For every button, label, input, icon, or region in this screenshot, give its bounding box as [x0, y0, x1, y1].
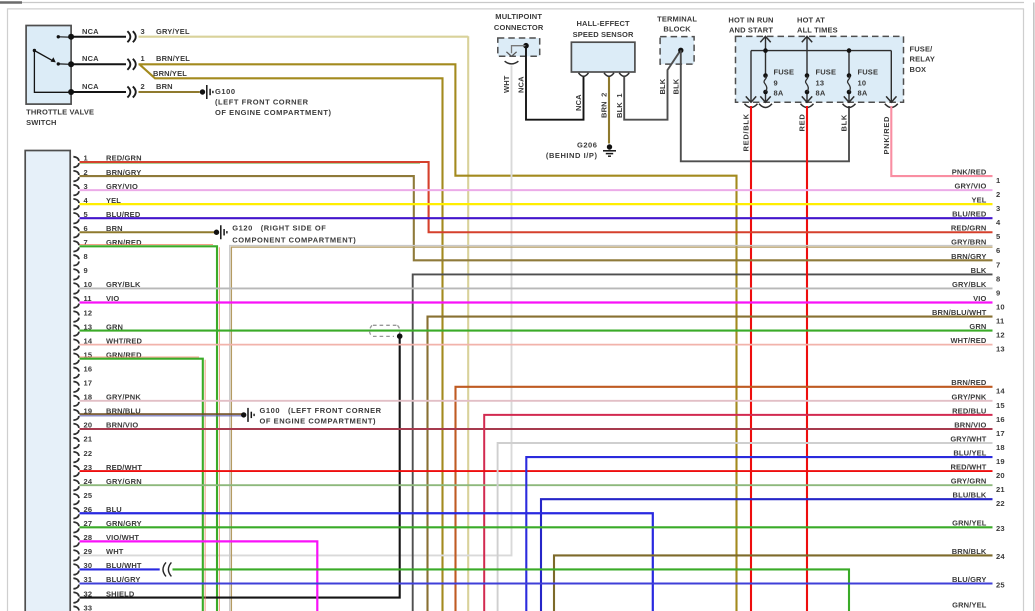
svg-text:6: 6: [996, 246, 1000, 255]
svg-text:8: 8: [84, 252, 88, 261]
svg-text:9: 9: [996, 288, 1000, 297]
svg-text:G206: G206: [577, 141, 598, 150]
svg-text:BOX: BOX: [910, 65, 927, 74]
svg-text:16: 16: [84, 364, 93, 373]
svg-text:17: 17: [996, 429, 1005, 438]
svg-text:25: 25: [996, 580, 1005, 589]
svg-text:25: 25: [84, 491, 93, 500]
svg-text:18: 18: [996, 443, 1005, 452]
svg-text:4: 4: [996, 218, 1001, 227]
svg-text:COMPONENT COMPARTMENT): COMPONENT COMPARTMENT): [232, 235, 356, 244]
svg-text:21: 21: [996, 485, 1005, 494]
svg-text:8A: 8A: [774, 89, 784, 98]
svg-text:22: 22: [84, 449, 93, 458]
svg-text:WHT/RED: WHT/RED: [950, 336, 986, 345]
svg-text:BLU/BLK: BLU/BLK: [953, 491, 987, 500]
svg-text:BLK 1: BLK 1: [615, 93, 624, 118]
svg-text:10: 10: [858, 78, 867, 87]
svg-text:19: 19: [996, 457, 1005, 466]
svg-text:12: 12: [84, 308, 93, 317]
svg-text:9: 9: [774, 78, 778, 87]
svg-text:3: 3: [996, 204, 1000, 213]
svg-text:1: 1: [996, 176, 1001, 185]
svg-text:GRY/YEL: GRY/YEL: [156, 27, 190, 36]
svg-text:RED/WHT: RED/WHT: [950, 463, 986, 472]
svg-text:23: 23: [996, 524, 1005, 533]
svg-text:13: 13: [816, 78, 825, 87]
svg-text:20: 20: [996, 471, 1005, 480]
svg-text:9: 9: [84, 266, 88, 275]
svg-text:24: 24: [996, 552, 1005, 561]
svg-text:8: 8: [996, 274, 1000, 283]
svg-text:HALL-EFFECT: HALL-EFFECT: [576, 19, 630, 28]
svg-text:2: 2: [996, 190, 1000, 199]
svg-text:GRN/YEL: GRN/YEL: [952, 601, 987, 610]
svg-text:BLK: BLK: [658, 78, 667, 94]
svg-text:THROTTLE VALVE: THROTTLE VALVE: [26, 108, 94, 117]
svg-text:BLOCK: BLOCK: [663, 25, 691, 34]
svg-text:FUSE: FUSE: [816, 67, 837, 76]
svg-text:OF ENGINE COMPARTMENT): OF ENGINE COMPARTMENT): [215, 108, 332, 117]
svg-text:HOT IN RUN: HOT IN RUN: [728, 16, 773, 25]
svg-text:2: 2: [141, 82, 145, 91]
svg-text:WHT: WHT: [106, 547, 124, 556]
svg-text:SPEED SENSOR: SPEED SENSOR: [573, 30, 634, 39]
svg-text:22: 22: [996, 499, 1005, 508]
svg-text:MULTIPOINT: MULTIPOINT: [495, 12, 542, 21]
svg-text:GRY/VIO: GRY/VIO: [954, 182, 986, 191]
svg-text:BRN/BLK: BRN/BLK: [952, 547, 987, 556]
svg-text:GRY/GRN: GRY/GRN: [951, 477, 987, 486]
svg-text:NCA: NCA: [574, 94, 583, 111]
svg-text:NCA: NCA: [82, 82, 99, 91]
svg-text:(BEHIND I/P): (BEHIND I/P): [546, 151, 598, 160]
svg-text:RED/BLU: RED/BLU: [952, 406, 986, 415]
svg-text:BRN/GRY: BRN/GRY: [951, 252, 986, 261]
svg-text:GRY/BRN: GRY/BRN: [951, 238, 986, 247]
svg-text:33: 33: [84, 603, 93, 611]
svg-text:PNK/RED: PNK/RED: [882, 116, 891, 155]
svg-text:GRN/YEL: GRN/YEL: [952, 519, 987, 528]
svg-text:RED/BLK: RED/BLK: [742, 113, 751, 151]
svg-text:21: 21: [84, 435, 93, 444]
svg-text:FUSE: FUSE: [774, 67, 795, 76]
svg-text:TERMINAL: TERMINAL: [657, 14, 697, 23]
svg-text:FUSE: FUSE: [858, 67, 879, 76]
svg-text:WHT: WHT: [502, 75, 511, 93]
svg-text:BLU/GRY: BLU/GRY: [952, 575, 987, 584]
svg-text:15: 15: [996, 401, 1005, 410]
svg-text:GRN: GRN: [969, 322, 986, 331]
svg-text:HOT AT: HOT AT: [797, 16, 825, 25]
svg-text:RED: RED: [798, 114, 807, 132]
svg-text:G100: G100: [215, 87, 236, 96]
svg-text:NCA: NCA: [517, 76, 526, 93]
svg-text:CONNECTOR: CONNECTOR: [494, 23, 544, 32]
svg-text:BRN/RED: BRN/RED: [951, 378, 987, 387]
svg-text:13: 13: [996, 345, 1005, 354]
svg-text:(LEFT FRONT CORNER: (LEFT FRONT CORNER: [215, 97, 309, 106]
svg-text:BRN/YEL: BRN/YEL: [153, 69, 187, 78]
svg-text:PNK/RED: PNK/RED: [952, 167, 987, 176]
svg-text:G120 (RIGHT SIDE OF: G120 (RIGHT SIDE OF: [232, 224, 326, 233]
svg-text:BLK: BLK: [971, 266, 987, 275]
svg-text:BLK: BLK: [671, 78, 680, 94]
svg-text:7: 7: [996, 260, 1000, 269]
svg-text:BLU/YEL: BLU/YEL: [953, 448, 986, 457]
svg-text:BRN/VIO: BRN/VIO: [954, 420, 986, 429]
svg-text:RELAY: RELAY: [910, 55, 935, 64]
svg-text:17: 17: [84, 379, 93, 388]
svg-text:NCA: NCA: [82, 54, 99, 63]
svg-text:AND START: AND START: [729, 26, 773, 35]
svg-text:3: 3: [141, 27, 145, 36]
svg-text:16: 16: [996, 415, 1005, 424]
svg-text:GRY/PNK: GRY/PNK: [952, 392, 987, 401]
svg-text:29: 29: [84, 547, 93, 556]
svg-text:5: 5: [996, 232, 1001, 241]
svg-text:BLU/RED: BLU/RED: [952, 210, 987, 219]
svg-text:10: 10: [996, 302, 1005, 311]
svg-text:GRY/BLK: GRY/BLK: [952, 280, 987, 289]
svg-text:FUSE/: FUSE/: [910, 44, 934, 53]
svg-text:GRY/WHT: GRY/WHT: [950, 434, 986, 443]
svg-text:BRN/BLU/WHT: BRN/BLU/WHT: [932, 308, 987, 317]
svg-text:BRN: BRN: [156, 82, 173, 91]
svg-text:12: 12: [996, 331, 1005, 340]
svg-text:11: 11: [996, 316, 1005, 325]
svg-text:BRN/YEL: BRN/YEL: [156, 54, 190, 63]
svg-text:NCA: NCA: [82, 27, 99, 36]
svg-text:1: 1: [141, 54, 145, 63]
svg-text:VIO: VIO: [973, 294, 986, 303]
svg-text:OF ENGINE COMPARTMENT): OF ENGINE COMPARTMENT): [260, 417, 377, 426]
svg-text:8A: 8A: [816, 89, 826, 98]
svg-text:RED/GRN: RED/GRN: [951, 224, 987, 233]
svg-text:8A: 8A: [858, 89, 868, 98]
svg-text:BRN 2: BRN 2: [600, 93, 609, 119]
svg-text:G100 (LEFT FRONT CORNER: G100 (LEFT FRONT CORNER: [260, 406, 382, 415]
svg-text:YEL: YEL: [971, 196, 986, 205]
svg-text:BLK: BLK: [840, 114, 849, 132]
svg-text:ALL TIMES: ALL TIMES: [797, 26, 838, 35]
svg-text:14: 14: [996, 387, 1005, 396]
svg-text:SWITCH: SWITCH: [26, 118, 56, 127]
